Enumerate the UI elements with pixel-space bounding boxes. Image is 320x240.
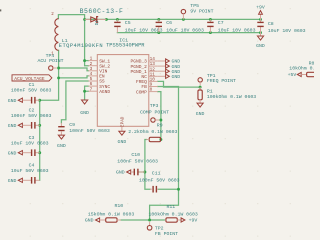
svg-text:ACU_VOLTAGE: ACU_VOLTAGE xyxy=(14,76,45,82)
svg-text:C11: C11 xyxy=(152,170,161,176)
svg-text:10uF 10V 0603: 10uF 10V 0603 xyxy=(268,28,306,34)
svg-text:100kOhm 0.1W 0603: 100kOhm 0.1W 0603 xyxy=(207,94,256,100)
svg-text:2.2kOhm 0.1W 0603: 2.2kOhm 0.1W 0603 xyxy=(128,129,177,135)
svg-text:10kOhm 0.1W 0603: 10kOhm 0.1W 0603 xyxy=(289,65,314,71)
svg-text:100nF 50V 0603: 100nF 50V 0603 xyxy=(11,88,52,94)
svg-text:PGND_1: PGND_1 xyxy=(131,69,148,75)
svg-text:9V POINT: 9V POINT xyxy=(190,9,213,15)
svg-text:100nF 50V 0603: 100nF 50V 0603 xyxy=(69,128,110,134)
svg-text:SS: SS xyxy=(99,79,105,85)
svg-text:PGND_2: PGND_2 xyxy=(131,64,148,70)
svg-text:100nF 50V 0603: 100nF 50V 0603 xyxy=(11,113,52,119)
svg-text:ACU POINT: ACU POINT xyxy=(38,58,64,64)
svg-text:C9: C9 xyxy=(69,122,75,128)
svg-text:GND: GND xyxy=(172,74,181,80)
svg-text:SW_1: SW_1 xyxy=(99,58,110,64)
svg-text:COMP: COMP xyxy=(136,89,147,95)
svg-text:GND: GND xyxy=(256,43,265,49)
svg-text:100nF 50V 0603: 100nF 50V 0603 xyxy=(117,158,158,164)
svg-text:+5V: +5V xyxy=(288,72,297,78)
svg-text:15kOhm 0.1W 0603: 15kOhm 0.1W 0603 xyxy=(88,212,134,218)
svg-text:C2: C2 xyxy=(29,108,35,114)
svg-text:+9V: +9V xyxy=(189,218,198,224)
svg-text:C7: C7 xyxy=(218,20,224,26)
svg-text:10uF 10V 0603: 10uF 10V 0603 xyxy=(11,141,49,147)
svg-text:FREQ POINT: FREQ POINT xyxy=(207,78,236,84)
svg-text:10uF 10V 0603: 10uF 10V 0603 xyxy=(125,27,163,33)
svg-text:GND: GND xyxy=(8,150,17,156)
svg-text:GND: GND xyxy=(80,110,89,116)
svg-text:GND: GND xyxy=(196,111,205,117)
svg-text:R9: R9 xyxy=(157,123,163,129)
svg-text:TP3: TP3 xyxy=(150,103,159,109)
svg-text:ETQP4M100KFN: ETQP4M100KFN xyxy=(59,43,103,49)
svg-text:COMP POINT: COMP POINT xyxy=(140,110,169,116)
svg-text:TP5: TP5 xyxy=(190,3,199,9)
svg-text:8: 8 xyxy=(150,88,153,93)
svg-text:AGND: AGND xyxy=(99,89,110,95)
svg-text:GND: GND xyxy=(172,59,181,65)
svg-text:EN: EN xyxy=(99,74,105,80)
svg-text:C3: C3 xyxy=(29,135,35,141)
svg-text:C10: C10 xyxy=(131,152,140,158)
svg-text:SW_2: SW_2 xyxy=(99,63,110,69)
svg-text:GND: GND xyxy=(85,218,94,224)
svg-text:VIN: VIN xyxy=(99,69,107,75)
svg-text:10uF 50V 0603: 10uF 50V 0603 xyxy=(11,168,49,174)
svg-text:SYNC: SYNC xyxy=(99,84,110,90)
svg-text:+9V: +9V xyxy=(256,5,265,11)
svg-text:FREQ: FREQ xyxy=(136,79,147,85)
svg-text:10uF 10V 0603: 10uF 10V 0603 xyxy=(166,27,204,33)
svg-text:C1: C1 xyxy=(29,82,35,88)
svg-text:EPAD: EPAD xyxy=(120,116,125,127)
svg-text:R10: R10 xyxy=(115,203,124,209)
svg-text:GND: GND xyxy=(172,64,181,70)
svg-text:FB POINT: FB POINT xyxy=(155,231,178,237)
svg-text:GND: GND xyxy=(8,178,17,184)
svg-text:C5: C5 xyxy=(125,20,131,26)
svg-text:7: 7 xyxy=(90,87,93,92)
svg-text:C6: C6 xyxy=(166,20,172,26)
svg-text:100nF 50V 0603: 100nF 50V 0603 xyxy=(139,177,180,183)
svg-text:GND: GND xyxy=(118,139,127,145)
svg-text:GND: GND xyxy=(172,69,181,75)
svg-text:TP2: TP2 xyxy=(155,225,164,231)
svg-text:10uF 10V 0603: 10uF 10V 0603 xyxy=(218,27,256,33)
svg-text:GND: GND xyxy=(57,143,66,149)
svg-text:GND: GND xyxy=(8,123,17,129)
svg-text:TPS55340PWPR: TPS55340PWPR xyxy=(106,42,145,48)
svg-text:R1: R1 xyxy=(207,88,213,94)
svg-text:GND: GND xyxy=(8,98,17,104)
svg-text:GND: GND xyxy=(116,170,125,176)
svg-text:C4: C4 xyxy=(29,163,35,169)
svg-text:D1: D1 xyxy=(95,20,100,26)
svg-text:NC: NC xyxy=(141,74,147,80)
svg-text:B560C-13-F: B560C-13-F xyxy=(80,8,124,15)
svg-text:C8: C8 xyxy=(268,21,274,27)
svg-text:100kOhm 0.1W 0603: 100kOhm 0.1W 0603 xyxy=(149,212,198,218)
svg-text:PGND_3: PGND_3 xyxy=(131,59,148,65)
svg-text:R11: R11 xyxy=(167,204,176,210)
svg-text:FB: FB xyxy=(141,84,147,90)
